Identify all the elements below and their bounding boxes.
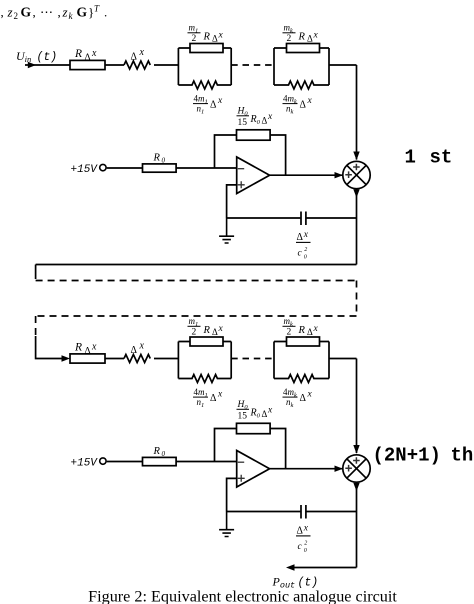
svg-text:G: G xyxy=(21,5,32,20)
svg-text:0: 0 xyxy=(162,450,166,458)
wire xyxy=(105,358,124,360)
equation text fragment top xyxy=(1,4,108,22)
svg-text:Δ: Δ xyxy=(300,393,307,404)
svg-text:x: x xyxy=(303,523,309,533)
svg-text:R: R xyxy=(153,446,161,457)
wire block k to node stage2 xyxy=(329,358,357,360)
S2 plus top xyxy=(353,457,360,464)
label mk/2 R dx stage2 xyxy=(284,316,319,338)
svg-text:Δ: Δ xyxy=(85,347,91,357)
label R dx xyxy=(74,48,97,63)
label (2N+1) th xyxy=(373,445,474,467)
svg-text:Δ: Δ xyxy=(210,100,217,111)
S1 plus top xyxy=(353,164,360,171)
svg-text:k: k xyxy=(69,11,74,21)
svg-text:x: x xyxy=(91,342,97,353)
svg-text:x: x xyxy=(139,341,145,352)
svg-text:R: R xyxy=(203,32,211,43)
svg-text:z: z xyxy=(62,5,68,20)
S1 plus left xyxy=(345,171,352,178)
svg-text:Figure 2: Equivalent electroni: Figure 2: Equivalent electronic analogue… xyxy=(88,588,397,604)
resistor R (R_dx) box xyxy=(70,60,105,69)
label dx stage2 xyxy=(131,341,145,357)
svg-text:st: st xyxy=(430,147,453,169)
svg-text:x: x xyxy=(307,96,313,106)
wire plus input to ground node stage2 xyxy=(227,478,237,511)
wire dashed interstage row 1 xyxy=(36,280,357,282)
svg-text:x: x xyxy=(313,324,319,334)
parallel block 1 frame xyxy=(178,48,231,85)
feedback resistor H0/15 R0 dx box xyxy=(237,130,271,140)
summing junction S2 xyxy=(343,455,370,482)
node Uin(t) label xyxy=(16,49,57,64)
wire summer output down with arrow stage2 xyxy=(353,482,359,567)
label R0 stage2 xyxy=(153,446,166,458)
svg-text:.: . xyxy=(104,5,107,20)
op-amp plus marker stage2 xyxy=(238,475,245,482)
ground G1 xyxy=(219,218,234,243)
svg-text:+15V: +15V xyxy=(71,458,99,470)
svg-text:x: x xyxy=(139,47,145,58)
wire opamp output to summer with arrow stage2 xyxy=(270,466,343,472)
parallel block k frame stage2 xyxy=(274,342,329,379)
label 4mk/nk dx stage2 xyxy=(283,387,313,409)
op-amp minus marker stage2 xyxy=(238,461,244,463)
label H0/15 R0 dx xyxy=(237,107,274,129)
label Pout(t) xyxy=(272,575,319,591)
svg-text:x: x xyxy=(307,390,313,400)
wire dashed between blocks xyxy=(231,64,274,66)
label +15V xyxy=(71,164,99,176)
svg-text:nk: nk xyxy=(286,397,294,409)
label dx/c0^2 xyxy=(297,230,309,261)
svg-text:x: x xyxy=(91,48,97,59)
svg-text:x: x xyxy=(218,31,224,41)
label +15V stage2 xyxy=(71,458,99,470)
svg-text:2: 2 xyxy=(287,328,292,338)
label m1/2 R dx xyxy=(189,23,224,45)
terminal circle stage2 xyxy=(100,458,106,464)
svg-text:Δ: Δ xyxy=(131,345,138,356)
wire ground node to capacitor stage2 xyxy=(227,511,301,513)
svg-text:Δ: Δ xyxy=(212,34,218,44)
wire to opamp stage2 xyxy=(176,461,237,463)
svg-text:1: 1 xyxy=(405,147,416,169)
svg-text:n1: n1 xyxy=(197,104,205,116)
svg-text:c: c xyxy=(298,542,303,552)
parallel block 1 bottom zigzag stage2 xyxy=(178,375,231,383)
svg-text:2: 2 xyxy=(287,34,292,44)
label mk/2 R dx xyxy=(284,23,319,45)
svg-text:Δ: Δ xyxy=(307,327,313,337)
wire xyxy=(105,64,124,66)
svg-text:x: x xyxy=(267,406,273,416)
resistor zigzag dx xyxy=(124,61,150,69)
svg-text:c: c xyxy=(298,249,303,259)
feedback resistor box stage2 xyxy=(237,423,271,433)
wire capacitor to output node xyxy=(306,217,357,219)
parallel block 1 frame stage2 xyxy=(178,342,231,379)
svg-text:x: x xyxy=(313,31,319,41)
svg-text:n1: n1 xyxy=(197,397,205,409)
feedback wire left/top xyxy=(215,135,237,168)
svg-text:th: th xyxy=(451,445,474,467)
svg-text:2: 2 xyxy=(14,11,19,21)
label 4m1/n1 dx xyxy=(194,94,224,116)
svg-text:Δ: Δ xyxy=(212,327,218,337)
feedback wire right stage2 xyxy=(270,429,286,469)
svg-text:,: , xyxy=(1,5,4,20)
svg-text:Δ: Δ xyxy=(131,52,138,63)
svg-text:x: x xyxy=(217,390,223,400)
capacitor dx/c0^2 stage2 xyxy=(301,505,306,519)
svg-text:(t): (t) xyxy=(37,51,58,64)
svg-text:z: z xyxy=(7,5,13,20)
wire summer output down with arrow xyxy=(353,189,359,265)
wire block k to node xyxy=(329,64,357,66)
parallel block 1 top resistor box m1/2 R dx xyxy=(190,44,223,53)
wire plus input to ground node xyxy=(227,185,237,218)
resistor R (R_dx) box stage2 xyxy=(70,354,105,363)
svg-text:R: R xyxy=(153,153,161,164)
svg-text:Δ: Δ xyxy=(297,525,304,536)
wire xyxy=(154,64,178,66)
parallel block 1 bottom zigzag 4m1/n1 dx xyxy=(178,81,231,89)
wire xyxy=(107,167,143,169)
wire output Pout with arrow xyxy=(286,564,357,570)
parallel block k top resistor box mk/2 R dx xyxy=(287,44,320,53)
resistor zigzag dx stage2 xyxy=(124,355,150,363)
svg-text:R0: R0 xyxy=(250,114,261,126)
svg-text:R: R xyxy=(298,32,306,43)
parallel block k top resistor box stage2 xyxy=(287,337,320,346)
svg-text:Δ: Δ xyxy=(85,53,91,63)
wire to opamp xyxy=(176,167,237,169)
svg-text:,: , xyxy=(33,5,36,20)
label H0/15 R0 dx stage2 xyxy=(237,400,274,422)
resistor R0 box xyxy=(143,164,177,172)
svg-text:Uin: Uin xyxy=(16,49,31,64)
label m1/2 R dx stage2 xyxy=(189,316,224,338)
svg-text:Δ: Δ xyxy=(210,393,217,404)
wire dashed interstage right vertical xyxy=(356,281,358,317)
wire ground node to capacitor xyxy=(227,217,301,219)
svg-text:2: 2 xyxy=(192,34,197,44)
svg-text:R: R xyxy=(203,325,211,336)
feedback wire right xyxy=(270,135,286,175)
label R0 xyxy=(153,153,166,165)
svg-text:R0: R0 xyxy=(250,408,261,420)
svg-text:2: 2 xyxy=(192,328,197,338)
wire xyxy=(107,461,143,463)
wire dashed interstage left vertical xyxy=(35,316,37,336)
svg-text:0: 0 xyxy=(162,157,166,165)
label dx xyxy=(131,47,145,63)
svg-text:Δ: Δ xyxy=(262,116,268,126)
op-amp U1 xyxy=(237,157,270,194)
svg-text:2: 2 xyxy=(304,247,307,253)
svg-text:Δ: Δ xyxy=(300,100,307,111)
svg-text:(2N+1): (2N+1) xyxy=(373,445,441,467)
svg-text:x: x xyxy=(217,96,223,106)
label dx/c0^2 stage2 xyxy=(297,523,309,554)
svg-text:Δ: Δ xyxy=(297,232,304,243)
parallel block k frame xyxy=(274,48,329,85)
wire capacitor to output node stage2 xyxy=(306,511,357,513)
label 4m1/n1 dx stage2 xyxy=(194,387,224,409)
svg-text:R: R xyxy=(74,48,82,60)
svg-text:nk: nk xyxy=(286,104,294,116)
S2 plus left xyxy=(345,465,352,472)
op-amp plus marker xyxy=(238,181,245,188)
svg-text:G: G xyxy=(77,5,88,20)
svg-text:15: 15 xyxy=(238,412,248,422)
svg-text:2: 2 xyxy=(304,541,307,547)
svg-text:⋯: ⋯ xyxy=(40,5,53,20)
wire xyxy=(154,358,178,360)
ground G2 xyxy=(219,512,234,537)
label 4mk/nk dx xyxy=(283,94,313,116)
svg-text:Δ: Δ xyxy=(307,34,313,44)
feedback wire left/top stage2 xyxy=(215,429,237,462)
figure caption xyxy=(88,588,397,604)
summing junction S1 xyxy=(343,161,370,188)
wire dashed interstage row 2 xyxy=(36,315,357,317)
wire into stage 2 with arrow xyxy=(36,336,70,362)
wire input with arrow xyxy=(25,62,70,68)
parallel block k bottom zigzag 4mk/nk dx xyxy=(274,81,329,89)
svg-text:0: 0 xyxy=(304,255,307,261)
wire dashed between blocks stage2 xyxy=(231,358,274,360)
svg-text:x: x xyxy=(218,324,224,334)
op-amp U2 xyxy=(237,451,270,488)
svg-text:Δ: Δ xyxy=(262,409,268,419)
svg-text:0: 0 xyxy=(304,548,307,554)
svg-text:T: T xyxy=(94,4,100,14)
wire down to summer with arrow xyxy=(353,65,359,160)
svg-text:R: R xyxy=(74,342,82,354)
svg-text:x: x xyxy=(303,230,309,240)
terminal circle xyxy=(100,164,106,170)
svg-text:R: R xyxy=(298,325,306,336)
wire stage1 output down-left xyxy=(36,265,357,280)
label 1 st xyxy=(405,147,453,169)
parallel block k bottom zigzag stage2 xyxy=(274,375,329,383)
svg-text:15: 15 xyxy=(238,118,248,128)
wire down to summer with arrow stage2 xyxy=(353,359,359,454)
capacitor dx/c0^2 xyxy=(301,212,306,226)
wire opamp output to summer with arrow xyxy=(270,172,343,178)
svg-text:+15V: +15V xyxy=(71,164,99,176)
svg-text:x: x xyxy=(267,112,273,122)
label R dx stage2 xyxy=(74,342,97,357)
op-amp minus marker xyxy=(238,168,244,170)
svg-text:,: , xyxy=(58,5,61,20)
parallel block 1 top resistor box stage2 xyxy=(190,337,223,346)
resistor R0 box stage2 xyxy=(143,457,177,465)
